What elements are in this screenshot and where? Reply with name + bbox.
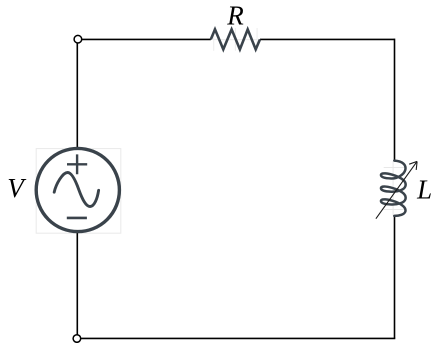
guide box V source — [36, 149, 121, 234]
wire left vertical upper — [76, 43, 78, 150]
inductor variable arrow — [376, 161, 417, 218]
wire right vertical upper — [394, 39, 396, 161]
guide lines inductor — [384, 161, 405, 216]
wire right vertical lower — [394, 216, 396, 339]
terminal node top-left — [74, 35, 82, 43]
svg-text:L: L — [416, 175, 432, 205]
svg-text:R: R — [226, 1, 244, 31]
inductor L1 coil — [381, 161, 406, 216]
voltage source V1 circle — [36, 148, 119, 231]
wire top-left horizontal — [81, 38, 211, 40]
resistor R1 zigzag — [211, 29, 260, 49]
minus sign — [67, 217, 87, 220]
wire left vertical lower — [76, 231, 78, 335]
voltage source sine wave — [54, 173, 98, 207]
wire bottom horizontal — [81, 337, 396, 339]
terminal node bottom-left — [73, 335, 81, 343]
plus sign — [67, 154, 87, 174]
guide lines resistor — [214, 28, 257, 51]
wire top-right horizontal — [260, 38, 395, 40]
